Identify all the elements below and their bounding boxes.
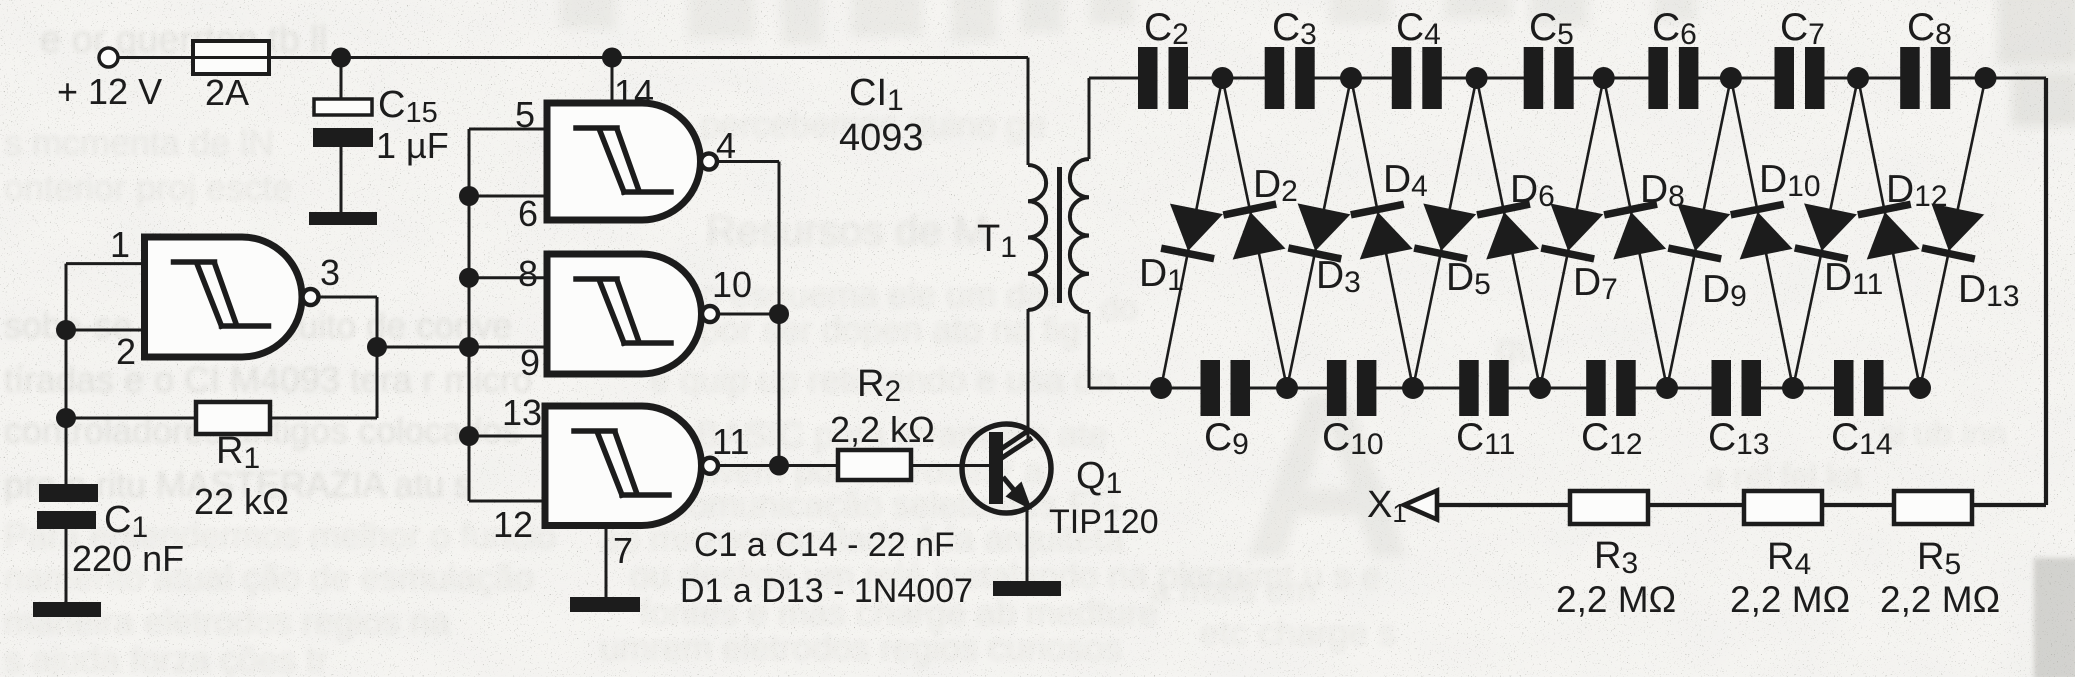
svg-text:4: 4 — [716, 125, 736, 166]
svg-text:7: 7 — [613, 530, 633, 571]
svg-text:6: 6 — [518, 193, 538, 234]
svg-text:2,2 MΩ: 2,2 MΩ — [1730, 579, 1850, 620]
svg-text:C1 a C14 - 22 nF: C1 a C14 - 22 nF — [694, 526, 955, 564]
svg-text:s mcmenta de lN: s mcmenta de lN — [4, 122, 274, 163]
svg-text:4093: 4093 — [839, 117, 924, 159]
svg-text:13: 13 — [502, 392, 542, 433]
svg-text:1: 1 — [110, 224, 130, 265]
svg-text:onoimt u s e: onoimt u s e — [1185, 555, 1381, 596]
svg-text:Resursos de M: Resursos de M — [706, 207, 988, 254]
svg-text:e or querrten tb ll: e or querrten tb ll — [40, 19, 327, 61]
svg-text:14: 14 — [614, 72, 654, 113]
svg-text:2,2 MΩ: 2,2 MΩ — [1556, 579, 1676, 620]
svg-text:220 nF: 220 nF — [72, 538, 184, 579]
svg-text:3: 3 — [320, 252, 340, 293]
svg-text:tíradas e o CI M4093 tera: tíradas e o CI M4093 tera r micro — [4, 359, 532, 400]
svg-text:D1 a D13 - 1N4007: D1 a D13 - 1N4007 — [680, 572, 973, 610]
svg-text:2A: 2A — [205, 72, 249, 113]
svg-text:onterior proj escte: onterior proj escte — [4, 167, 292, 208]
svg-text:9: 9 — [520, 342, 540, 383]
svg-text:2,2 kΩ: 2,2 kΩ — [830, 409, 935, 450]
svg-text:si ub inn: si ub inn — [1880, 415, 2007, 453]
svg-text:8: 8 — [518, 253, 538, 294]
svg-text:2,2 MΩ: 2,2 MΩ — [1880, 579, 2000, 620]
svg-text:2: 2 — [116, 331, 136, 372]
svg-text:10: 10 — [712, 264, 752, 305]
svg-text:s ajuda forza ções tr: s ajuda forza ções tr — [4, 639, 328, 677]
svg-text:1 µF: 1 µF — [376, 125, 449, 166]
svg-text:22 kΩ: 22 kΩ — [194, 481, 289, 522]
svg-text:5: 5 — [515, 94, 535, 135]
svg-text:do: do — [1100, 290, 1138, 328]
svg-text:+ 12 V: + 12 V — [57, 71, 162, 112]
svg-text:TIP120: TIP120 — [1049, 503, 1159, 541]
svg-text:etc charge s: etc charge s — [1200, 612, 1396, 653]
svg-text:11: 11 — [712, 421, 749, 462]
svg-text:12: 12 — [493, 504, 533, 545]
svg-text:umrem eletrodos regios curi: umrem eletrodos regios curiosos — [600, 627, 1122, 668]
